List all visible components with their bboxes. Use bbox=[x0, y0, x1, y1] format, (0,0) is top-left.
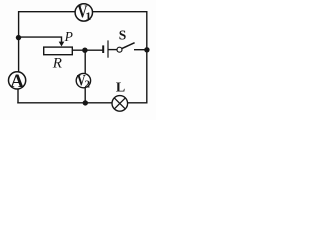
lamp L bbox=[112, 96, 128, 112]
wire right vertical bbox=[146, 11, 148, 104]
voltmeter V2 bbox=[76, 73, 90, 90]
wire bottom-left segment bbox=[17, 102, 112, 104]
wire switch to right bbox=[134, 49, 147, 51]
ammeter A bbox=[9, 71, 26, 92]
svg-text:S: S bbox=[119, 27, 127, 42]
slider arrowhead P bbox=[59, 42, 65, 47]
battery cell bbox=[103, 40, 108, 57]
wire bottom-right segment bbox=[128, 102, 148, 104]
svg-text:A: A bbox=[10, 71, 24, 92]
node junction bottom bbox=[83, 100, 88, 105]
wire rheostat slider branch bbox=[19, 37, 62, 42]
svg-text:P: P bbox=[64, 29, 73, 44]
wire top-left segment bbox=[19, 11, 76, 13]
svg-text:L: L bbox=[116, 80, 125, 95]
switch S bbox=[117, 43, 135, 53]
node junction right bbox=[144, 47, 149, 52]
wire rheostat to battery bbox=[72, 49, 102, 51]
background bbox=[0, 0, 156, 120]
wire left vertical bbox=[18, 11, 20, 72]
wire V2 upper lead bbox=[84, 50, 86, 74]
wire left lower vertical bbox=[17, 89, 19, 104]
wire top-right segment bbox=[92, 11, 147, 13]
wire battery to switch bbox=[108, 49, 117, 51]
node junction mid bbox=[82, 48, 87, 53]
svg-text:1: 1 bbox=[85, 9, 91, 23]
resistor R (rheostat body) bbox=[44, 47, 73, 55]
wire V2 lower lead bbox=[84, 88, 86, 103]
node junction left bbox=[16, 35, 21, 40]
voltmeter V1 bbox=[75, 3, 92, 23]
svg-text:R: R bbox=[52, 55, 62, 71]
